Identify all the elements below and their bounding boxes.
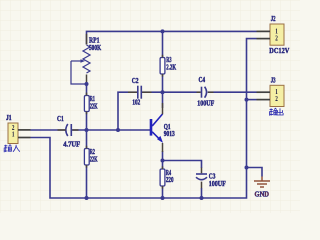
J2 pin 1 xyxy=(257,30,271,32)
J2 pin 2 xyxy=(257,38,271,40)
connector J2 xyxy=(257,24,285,45)
svg-text:2: 2 xyxy=(275,95,278,103)
svg-text:500K: 500K xyxy=(89,44,102,52)
wire C2 left branch from base node xyxy=(118,92,137,130)
svg-text:22K: 22K xyxy=(90,102,98,110)
capacitor C4 xyxy=(202,87,207,98)
J1 pin 1 xyxy=(18,137,31,139)
svg-text:DC12V: DC12V xyxy=(269,47,289,55)
capacitor C1 xyxy=(66,124,72,136)
resistor R1 xyxy=(84,96,89,112)
svg-text:22K: 22K xyxy=(90,155,98,163)
connector J3 xyxy=(257,85,285,106)
svg-text:4.7UF: 4.7UF xyxy=(63,140,80,148)
wire J3 pin2 to ground column xyxy=(247,99,257,101)
wire Q1 emitter vertical xyxy=(162,151,164,161)
resistor R4 xyxy=(160,169,165,186)
svg-text:102: 102 xyxy=(132,99,140,107)
wire VCC top rail xyxy=(87,31,257,44)
J1 pin 2 xyxy=(18,129,31,131)
RP1 pin 1 top xyxy=(86,34,88,45)
wire base node to R2 top xyxy=(86,130,88,149)
label 输出 (output) xyxy=(270,108,284,115)
wire RP1 bottom to R1 top xyxy=(86,82,88,96)
label 输入 (input) xyxy=(4,145,20,153)
R1 pin stubs xyxy=(86,93,88,115)
R3 pin stubs xyxy=(162,55,164,77)
node ground junction xyxy=(245,166,249,170)
potentiometer RP1 zigzag body xyxy=(83,45,90,73)
C3 pin stubs xyxy=(201,168,203,189)
wire ground node to GND symbol xyxy=(247,168,263,177)
svg-text:100UF: 100UF xyxy=(209,180,226,188)
wire emitter node to C3 top xyxy=(163,161,202,169)
wire emitter node to R4 top xyxy=(162,161,164,170)
wire C1 to Q1 base xyxy=(71,129,151,131)
svg-text:9013: 9013 xyxy=(164,130,175,138)
svg-text:220: 220 xyxy=(166,176,174,184)
node C2 base branch junction xyxy=(116,128,120,132)
ground symbol xyxy=(254,177,270,188)
svg-text:J2: J2 xyxy=(271,15,276,23)
Q1 emitter pin xyxy=(162,143,164,152)
wire R3 bottom to collector node xyxy=(162,74,164,92)
capacitor C2 xyxy=(138,86,142,99)
capacitor C3 xyxy=(196,174,207,180)
connector J1 xyxy=(8,123,31,144)
RP1 wiper arrow xyxy=(81,59,86,63)
svg-text:GND: GND xyxy=(255,191,270,199)
wire C4 to J3 pin1 xyxy=(208,91,257,93)
wire R2 bottom to ground rail xyxy=(86,165,88,198)
R4 pin stubs xyxy=(162,166,164,188)
node R2 ground junction xyxy=(85,196,89,200)
RP1 wiper wire xyxy=(71,61,87,84)
wire collector node to C4 xyxy=(163,91,201,93)
node Q1 base junction xyxy=(85,128,89,132)
svg-text:J1: J1 xyxy=(6,114,12,122)
wire top rail to R3 top xyxy=(162,31,164,57)
svg-text:100UF: 100UF xyxy=(197,100,214,108)
wire J2 pin2 down to ground node xyxy=(247,39,257,168)
wire R1 bottom to base node xyxy=(86,112,88,131)
svg-text:2: 2 xyxy=(275,35,278,43)
node R4 ground junction xyxy=(161,196,165,200)
wire Q1 collector vertical xyxy=(162,92,164,108)
C4 pin stubs xyxy=(197,91,214,93)
svg-text:1: 1 xyxy=(12,131,15,139)
svg-text:C2: C2 xyxy=(132,77,139,85)
C2 pin stubs xyxy=(128,91,152,93)
wire J1 pin1 down and bottom ground rail xyxy=(31,138,247,199)
Q1 collector pin xyxy=(162,103,164,114)
transistor Q1 xyxy=(151,114,163,139)
Q1 emitter arrow xyxy=(157,136,163,143)
RP1 pin 2 bottom xyxy=(86,75,88,83)
wire C2 right to collector node xyxy=(142,91,163,93)
wire J1 pin2 to C1 xyxy=(31,129,67,131)
J3 pin 1 xyxy=(257,91,271,93)
node collector junction xyxy=(161,90,165,94)
node emitter junction xyxy=(161,159,165,163)
node J3 pin2 junction xyxy=(245,98,249,102)
wire C3 bottom to ground rail xyxy=(201,188,203,198)
svg-text:2.2K: 2.2K xyxy=(166,64,176,72)
resistor R2 xyxy=(84,149,89,166)
svg-text:C1: C1 xyxy=(57,115,64,123)
R2 pin stubs xyxy=(86,146,88,168)
wire R4 bottom to ground rail xyxy=(162,186,164,198)
node RP1 wiper junction xyxy=(85,82,89,86)
node VCC rail R3 junction xyxy=(161,29,165,33)
node C3 ground junction xyxy=(200,196,204,200)
svg-text:J3: J3 xyxy=(271,77,276,85)
J3 pin 2 xyxy=(257,99,271,101)
resistor R3 xyxy=(160,58,165,75)
svg-text:C4: C4 xyxy=(199,76,206,84)
C1 pin stubs xyxy=(58,129,79,131)
